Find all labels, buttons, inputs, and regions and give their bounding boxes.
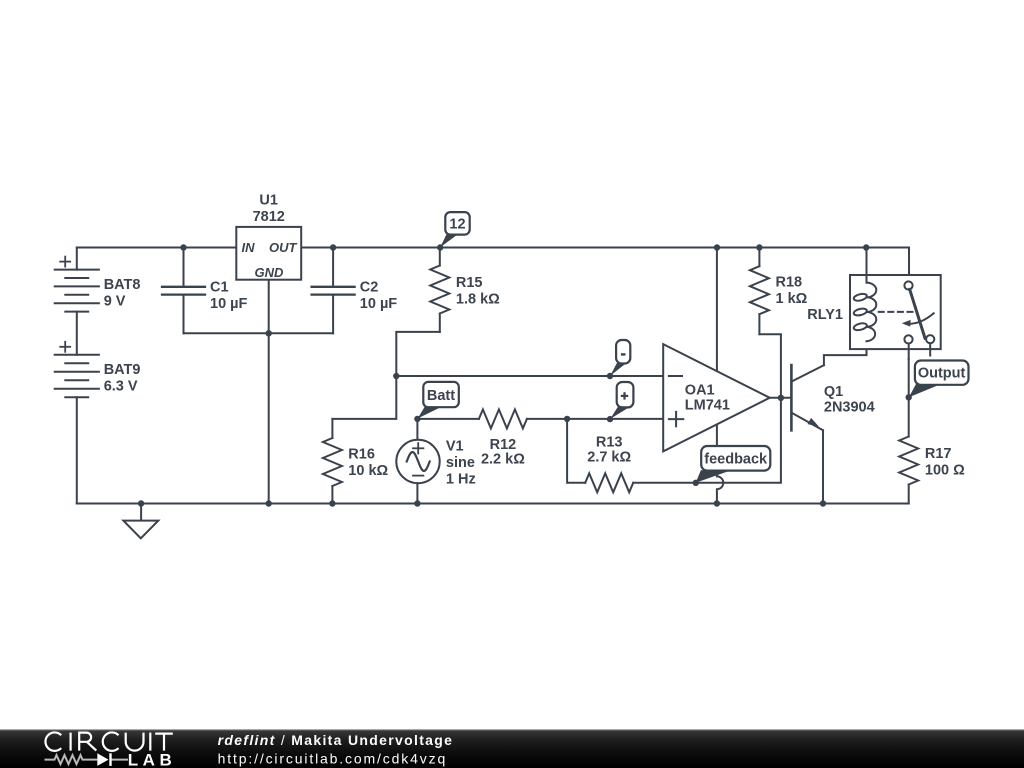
svg-text:Output: Output (918, 366, 966, 382)
op-amp OA1 power pins (716, 248, 718, 372)
node flag 12 (440, 212, 469, 247)
svg-text:R17: R17 (925, 446, 952, 462)
wire R13 to feedback node (633, 482, 696, 484)
capacitor C2 (312, 248, 355, 334)
wire U1 GND down to bottom rail (268, 280, 270, 504)
svg-text:10 kΩ: 10 kΩ (348, 463, 388, 479)
svg-text:9 V: 9 V (104, 294, 126, 310)
svg-text:LAB: LAB (128, 750, 176, 768)
ground (123, 504, 158, 539)
svg-text:R13: R13 (596, 434, 623, 450)
node flag minus (610, 340, 630, 376)
svg-text:GND: GND (255, 265, 285, 280)
svg-text:1 kΩ: 1 kΩ (776, 291, 808, 307)
node flag Batt (418, 382, 459, 419)
wire top rail right (U1 OUT to relay corner) (301, 247, 909, 249)
svg-text:RLY1: RLY1 (807, 307, 843, 323)
wire C1-C2 bottom (184, 332, 334, 334)
resistor R15 (430, 248, 449, 332)
wire BAT8 to BAT9 (76, 312, 78, 355)
resistor R16 (323, 419, 342, 504)
wire op-amp output to Q1 base (770, 397, 792, 399)
wire relay switch drop (908, 248, 910, 282)
svg-text:R16: R16 (348, 447, 375, 463)
svg-text:2.7 kΩ: 2.7 kΩ (587, 449, 631, 465)
node flag feedback (696, 446, 771, 483)
node flag plus (610, 382, 633, 419)
resistor R17 (899, 437, 918, 504)
svg-text:6.3 V: 6.3 V (104, 379, 138, 395)
wire R12 to plus input (527, 418, 663, 420)
svg-text:R18: R18 (776, 275, 803, 291)
svg-text:BAT9: BAT9 (104, 362, 141, 378)
svg-text:C1: C1 (210, 280, 229, 296)
CircuitLab logo resistor-diode (45, 755, 129, 764)
wire feedback node to output with hop (696, 334, 781, 483)
svg-text:LM741: LM741 (685, 398, 730, 414)
battery BAT9 (55, 342, 99, 398)
wire minus input rail (396, 375, 663, 377)
svg-text:OUT: OUT (269, 240, 298, 255)
svg-text:sine: sine (446, 455, 475, 471)
resistor R12 (479, 409, 527, 428)
svg-text:Batt: Batt (427, 388, 455, 404)
wire R12 node down to R13 (567, 419, 585, 483)
footer bar (0, 729, 1024, 768)
svg-text:C2: C2 (360, 280, 379, 296)
svg-text:U1: U1 (259, 193, 278, 209)
wire battery to bottom rail (76, 397, 78, 503)
CircuitLab logo CIRCUIT (45, 732, 172, 750)
svg-text:R15: R15 (456, 275, 483, 291)
svg-text:OA1: OA1 (685, 382, 715, 398)
wire node A down to R16 (332, 376, 396, 419)
resistor R18 (750, 248, 769, 335)
svg-text:10 µF: 10 µF (210, 296, 248, 312)
svg-text:feedback: feedback (704, 452, 768, 468)
voltage regulator U1 box (236, 227, 301, 280)
svg-text:2N3904: 2N3904 (824, 400, 875, 416)
svg-text:12: 12 (449, 216, 465, 232)
wire relay to Output node and R17 (908, 359, 910, 437)
capacitor C1 (162, 248, 205, 334)
wire bottom rail (77, 503, 909, 505)
battery BAT8 (55, 248, 99, 312)
svg-text:1 Hz: 1 Hz (446, 472, 476, 488)
svg-text:Q1: Q1 (824, 384, 843, 400)
wire top rail left (battery to U1 IN) (77, 247, 237, 249)
svg-text:7812: 7812 (253, 209, 285, 225)
wire Q1 collector to relay coil (824, 341, 867, 365)
wire R15 bottom jog (396, 332, 440, 376)
svg-text:2.2 kΩ: 2.2 kΩ (481, 452, 525, 468)
svg-text:100 Ω: 100 Ω (925, 463, 965, 479)
svg-text:BAT8: BAT8 (104, 277, 141, 293)
wire Q1 emitter to bottom rail (822, 430, 824, 503)
resistor R13 (585, 473, 633, 492)
wire Batt node to V1 (416, 419, 418, 440)
node flag Output (909, 361, 969, 398)
relay RLY1 (850, 248, 941, 360)
svg-text:10 µF: 10 µF (360, 296, 398, 312)
svg-text:V1: V1 (446, 439, 464, 455)
svg-text:http://circuitlab.com/cdk4vzq: http://circuitlab.com/cdk4vzq (218, 750, 448, 766)
op-amp OA1 triangle (663, 344, 770, 451)
svg-text:rdeflint / Makita Undervoltage: rdeflint / Makita Undervoltage (218, 732, 454, 748)
voltage source V1 (396, 440, 439, 483)
wire Batt node to R12 (417, 418, 479, 420)
wire V1 to bottom rail (416, 483, 418, 503)
transistor Q1 (791, 365, 824, 430)
svg-text:1.8 kΩ: 1.8 kΩ (456, 292, 500, 308)
svg-text:IN: IN (242, 240, 256, 255)
